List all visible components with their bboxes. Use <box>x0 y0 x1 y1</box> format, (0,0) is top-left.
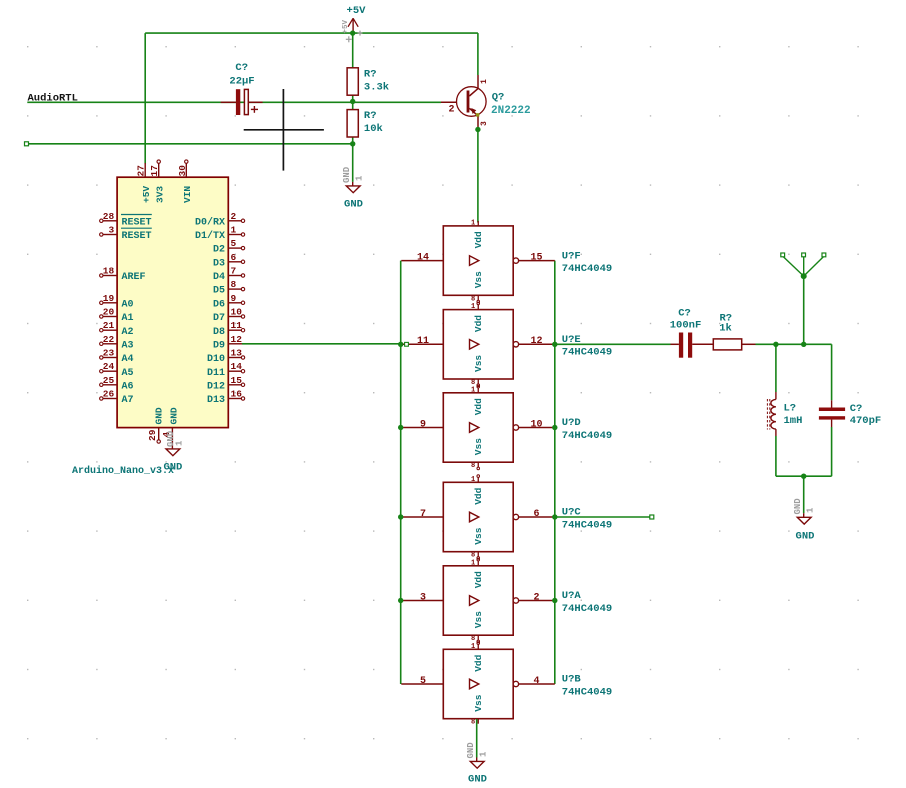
svg-text:C?: C? <box>850 403 863 415</box>
svg-text:11: 11 <box>231 320 243 331</box>
svg-text:AREF: AREF <box>122 272 146 283</box>
svg-text:Vss: Vss <box>473 527 484 544</box>
svg-text:D3: D3 <box>213 258 225 269</box>
svg-text:GND: GND <box>342 166 352 183</box>
svg-text:6: 6 <box>231 252 237 263</box>
svg-text:74HC4049: 74HC4049 <box>562 519 612 531</box>
svg-text:1: 1 <box>479 751 489 757</box>
svg-text:30: 30 <box>177 165 188 177</box>
svg-text:3V3: 3V3 <box>154 186 165 203</box>
svg-text:15: 15 <box>231 375 243 386</box>
svg-text:2: 2 <box>449 105 455 116</box>
svg-text:GND: GND <box>344 199 363 211</box>
svg-text:26: 26 <box>103 389 115 400</box>
svg-text:12: 12 <box>530 336 542 347</box>
svg-text:1: 1 <box>175 440 185 446</box>
svg-text:A3: A3 <box>122 340 134 351</box>
svg-text:8: 8 <box>471 295 475 303</box>
svg-text:5: 5 <box>231 238 237 249</box>
svg-text:RESET: RESET <box>122 231 152 242</box>
svg-text:74HC4049: 74HC4049 <box>562 686 612 698</box>
svg-text:6: 6 <box>533 509 539 520</box>
svg-text:100nF: 100nF <box>670 319 702 331</box>
svg-text:9: 9 <box>231 293 237 304</box>
svg-text:A4: A4 <box>122 354 134 365</box>
svg-text:1: 1 <box>471 386 475 394</box>
svg-text:C?: C? <box>235 62 248 74</box>
svg-text:74HC4049: 74HC4049 <box>562 430 612 442</box>
svg-text:D11: D11 <box>207 368 225 379</box>
svg-text:A7: A7 <box>122 395 134 406</box>
svg-text:D9: D9 <box>213 340 225 351</box>
svg-text:13: 13 <box>231 348 243 359</box>
svg-text:1: 1 <box>471 476 475 484</box>
svg-text:19: 19 <box>103 293 115 304</box>
svg-text:28: 28 <box>103 211 115 222</box>
svg-text:GND: GND <box>793 498 803 515</box>
svg-text:Vdd: Vdd <box>473 571 484 588</box>
svg-text:16: 16 <box>231 389 243 400</box>
svg-text:GND: GND <box>796 531 815 543</box>
svg-text:14: 14 <box>417 252 429 263</box>
svg-text:D7: D7 <box>213 313 225 324</box>
svg-text:74HC4049: 74HC4049 <box>562 347 612 359</box>
svg-text:Vdd: Vdd <box>473 654 484 671</box>
svg-text:22µF: 22µF <box>229 75 254 87</box>
svg-text:9: 9 <box>420 419 426 430</box>
svg-text:A6: A6 <box>122 381 134 392</box>
svg-text:Vss: Vss <box>473 611 484 628</box>
svg-text:1k: 1k <box>719 322 732 334</box>
svg-text:Vss: Vss <box>473 355 484 372</box>
svg-text:GND: GND <box>468 774 487 786</box>
svg-text:D10: D10 <box>207 354 225 365</box>
svg-text:10: 10 <box>530 419 542 430</box>
svg-text:A5: A5 <box>122 368 134 379</box>
svg-text:A0: A0 <box>122 299 134 310</box>
svg-text:15: 15 <box>530 252 542 263</box>
svg-text:22: 22 <box>103 334 115 345</box>
svg-text:Vdd: Vdd <box>473 315 484 332</box>
svg-text:1mH: 1mH <box>784 415 803 427</box>
svg-text:GND: GND <box>154 407 165 424</box>
svg-text:D4: D4 <box>213 272 225 283</box>
svg-text:U?A: U?A <box>562 590 582 602</box>
svg-text:L?: L? <box>784 403 797 415</box>
svg-text:1: 1 <box>471 303 475 311</box>
svg-text:Arduino_Nano_v3.x: Arduino_Nano_v3.x <box>72 465 174 477</box>
svg-text:D1/TX: D1/TX <box>195 230 225 242</box>
svg-text:2: 2 <box>533 592 539 603</box>
svg-text:Vdd: Vdd <box>473 231 484 248</box>
svg-text:3: 3 <box>480 121 489 126</box>
svg-text:23: 23 <box>103 348 115 359</box>
svg-text:3.3k: 3.3k <box>364 81 389 93</box>
svg-text:8: 8 <box>471 462 475 470</box>
svg-text:+5V: +5V <box>141 186 152 203</box>
svg-text:R?: R? <box>364 68 377 80</box>
svg-text:A1: A1 <box>122 313 134 324</box>
svg-text:D5: D5 <box>213 286 225 297</box>
svg-text:21: 21 <box>103 320 115 331</box>
svg-text:7: 7 <box>420 509 426 520</box>
svg-text:25: 25 <box>103 375 115 386</box>
svg-text:8: 8 <box>471 719 475 727</box>
svg-text:GND: GND <box>466 742 476 759</box>
svg-text:D8: D8 <box>213 327 225 338</box>
svg-text:18: 18 <box>103 266 115 277</box>
svg-text:D2: D2 <box>213 245 225 256</box>
svg-text:D12: D12 <box>207 381 225 392</box>
svg-text:Vdd: Vdd <box>473 398 484 415</box>
svg-text:74HC4049: 74HC4049 <box>562 603 612 615</box>
svg-text:Q?: Q? <box>492 92 505 104</box>
svg-text:470pF: 470pF <box>850 415 882 427</box>
svg-text:1: 1 <box>355 175 365 181</box>
svg-text:10: 10 <box>231 307 243 318</box>
svg-text:D13: D13 <box>207 395 225 406</box>
svg-text:2: 2 <box>231 211 237 222</box>
svg-text:+5V: +5V <box>342 19 350 33</box>
svg-text:1: 1 <box>480 79 489 84</box>
svg-text:14: 14 <box>231 361 243 372</box>
svg-text:29: 29 <box>147 429 158 441</box>
svg-text:VIN: VIN <box>182 186 193 203</box>
svg-text:17: 17 <box>149 165 160 177</box>
svg-text:1: 1 <box>231 225 237 236</box>
svg-text:20: 20 <box>103 307 115 318</box>
svg-text:Vss: Vss <box>473 271 484 288</box>
svg-text:D6: D6 <box>213 299 225 310</box>
svg-text:12: 12 <box>231 334 243 345</box>
svg-text:Vss: Vss <box>473 694 484 711</box>
svg-text:U?B: U?B <box>562 674 582 686</box>
svg-text:8: 8 <box>231 279 237 290</box>
svg-text:A2: A2 <box>122 327 134 338</box>
svg-text:3: 3 <box>420 592 426 603</box>
svg-text:1: 1 <box>471 559 475 567</box>
svg-text:+5V: +5V <box>347 5 367 17</box>
svg-text:11: 11 <box>417 336 429 347</box>
svg-text:74HC4049: 74HC4049 <box>562 263 612 275</box>
svg-text:C?: C? <box>678 307 691 319</box>
svg-text:AudioRTL: AudioRTL <box>28 92 78 104</box>
svg-text:Vss: Vss <box>473 438 484 455</box>
svg-text:27: 27 <box>136 165 147 177</box>
svg-text:U?F: U?F <box>562 250 581 262</box>
svg-text:24: 24 <box>103 361 115 372</box>
svg-text:R?: R? <box>364 110 377 122</box>
svg-text:5: 5 <box>420 676 426 687</box>
svg-text:U?D: U?D <box>562 417 581 429</box>
svg-text:D0/RX: D0/RX <box>195 216 225 228</box>
svg-text:Vdd: Vdd <box>473 487 484 504</box>
svg-text:1: 1 <box>806 507 816 513</box>
svg-text:4: 4 <box>533 676 539 687</box>
svg-text:2N2222: 2N2222 <box>491 105 531 117</box>
svg-text:10k: 10k <box>364 123 383 135</box>
svg-text:GND: GND <box>169 407 180 424</box>
svg-text:1: 1 <box>471 643 475 651</box>
svg-text:1: 1 <box>471 219 475 227</box>
svg-text:7: 7 <box>231 266 237 277</box>
svg-text:3: 3 <box>108 225 114 236</box>
svg-text:RESET: RESET <box>122 217 152 228</box>
